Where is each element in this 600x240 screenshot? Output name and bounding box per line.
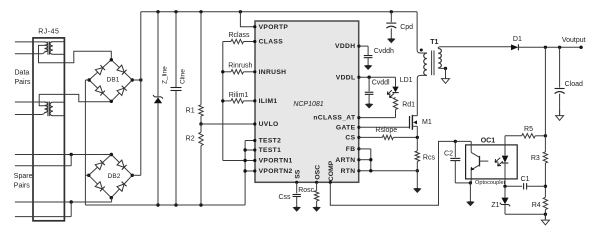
svg-text:INRUSH: INRUSH (259, 69, 287, 76)
svg-text:SS: SS (295, 169, 302, 179)
svg-text:Cpd: Cpd (400, 24, 413, 31)
svg-text:Pairs: Pairs (15, 79, 31, 86)
svg-text:DB2: DB2 (108, 173, 121, 180)
svg-text:T1: T1 (430, 39, 438, 46)
svg-text:Z_line: Z_line (162, 66, 169, 84)
svg-text:D1: D1 (513, 36, 522, 43)
svg-text:UVLO: UVLO (259, 121, 279, 128)
svg-text:VPORTN1: VPORTN1 (259, 158, 293, 165)
svg-text:OC1: OC1 (481, 138, 496, 145)
svg-text:ARTN: ARTN (335, 157, 355, 164)
svg-text:DB1: DB1 (107, 76, 120, 83)
svg-text:COMP: COMP (328, 160, 335, 181)
svg-text:Data: Data (15, 69, 30, 76)
svg-text:R5: R5 (524, 126, 533, 133)
svg-text:M1: M1 (422, 119, 432, 126)
svg-text:Cline: Cline (179, 69, 186, 84)
svg-text:CLASS: CLASS (259, 39, 284, 46)
svg-text:Spare: Spare (14, 173, 33, 180)
svg-text:Cvddl: Cvddl (372, 80, 390, 87)
svg-text:RTN: RTN (341, 168, 356, 175)
svg-text:Cload: Cload (565, 81, 583, 88)
svg-text:nCLASS_AT: nCLASS_AT (313, 115, 356, 122)
svg-text:Css: Css (278, 194, 291, 201)
svg-text:R1: R1 (186, 108, 195, 115)
svg-text:R2: R2 (186, 135, 195, 142)
svg-text:Rosc: Rosc (298, 187, 314, 194)
svg-text:C1: C1 (521, 176, 530, 183)
svg-text:TEST2: TEST2 (259, 138, 282, 145)
svg-text:Rslope: Rslope (375, 127, 397, 134)
svg-text:GATE: GATE (336, 124, 356, 131)
svg-text:Rd1: Rd1 (402, 102, 415, 109)
svg-text:LD1: LD1 (400, 77, 413, 84)
svg-text:Rilim1: Rilim1 (229, 92, 249, 99)
svg-text:Optocoupler: Optocoupler (475, 180, 506, 186)
svg-text:R4: R4 (532, 202, 541, 209)
svg-text:Z1: Z1 (491, 202, 499, 209)
svg-text:Cvddh: Cvddh (374, 48, 394, 55)
svg-text:VDDH: VDDH (335, 43, 355, 50)
svg-text:Rinrush: Rinrush (228, 63, 252, 70)
svg-text:TEST1: TEST1 (259, 147, 282, 154)
svg-text:ILIM1: ILIM1 (259, 98, 278, 105)
svg-text:FB: FB (346, 146, 356, 153)
svg-text:VPORTP: VPORTP (259, 24, 289, 31)
svg-text:VPORTN2: VPORTN2 (259, 168, 293, 175)
svg-text:C2: C2 (444, 150, 453, 157)
svg-text:VDDL: VDDL (336, 74, 356, 81)
svg-text:Pairs: Pairs (14, 183, 30, 190)
svg-text:RJ-45: RJ-45 (38, 28, 59, 35)
svg-text:Voutput: Voutput (562, 37, 586, 44)
svg-text:Rcs: Rcs (423, 154, 436, 161)
svg-text:CS: CS (345, 135, 355, 142)
svg-text:R3: R3 (531, 155, 540, 162)
svg-text:OSC: OSC (314, 165, 321, 180)
svg-text:Rclass: Rclass (228, 32, 250, 39)
svg-text:NCP1081: NCP1081 (293, 101, 323, 108)
